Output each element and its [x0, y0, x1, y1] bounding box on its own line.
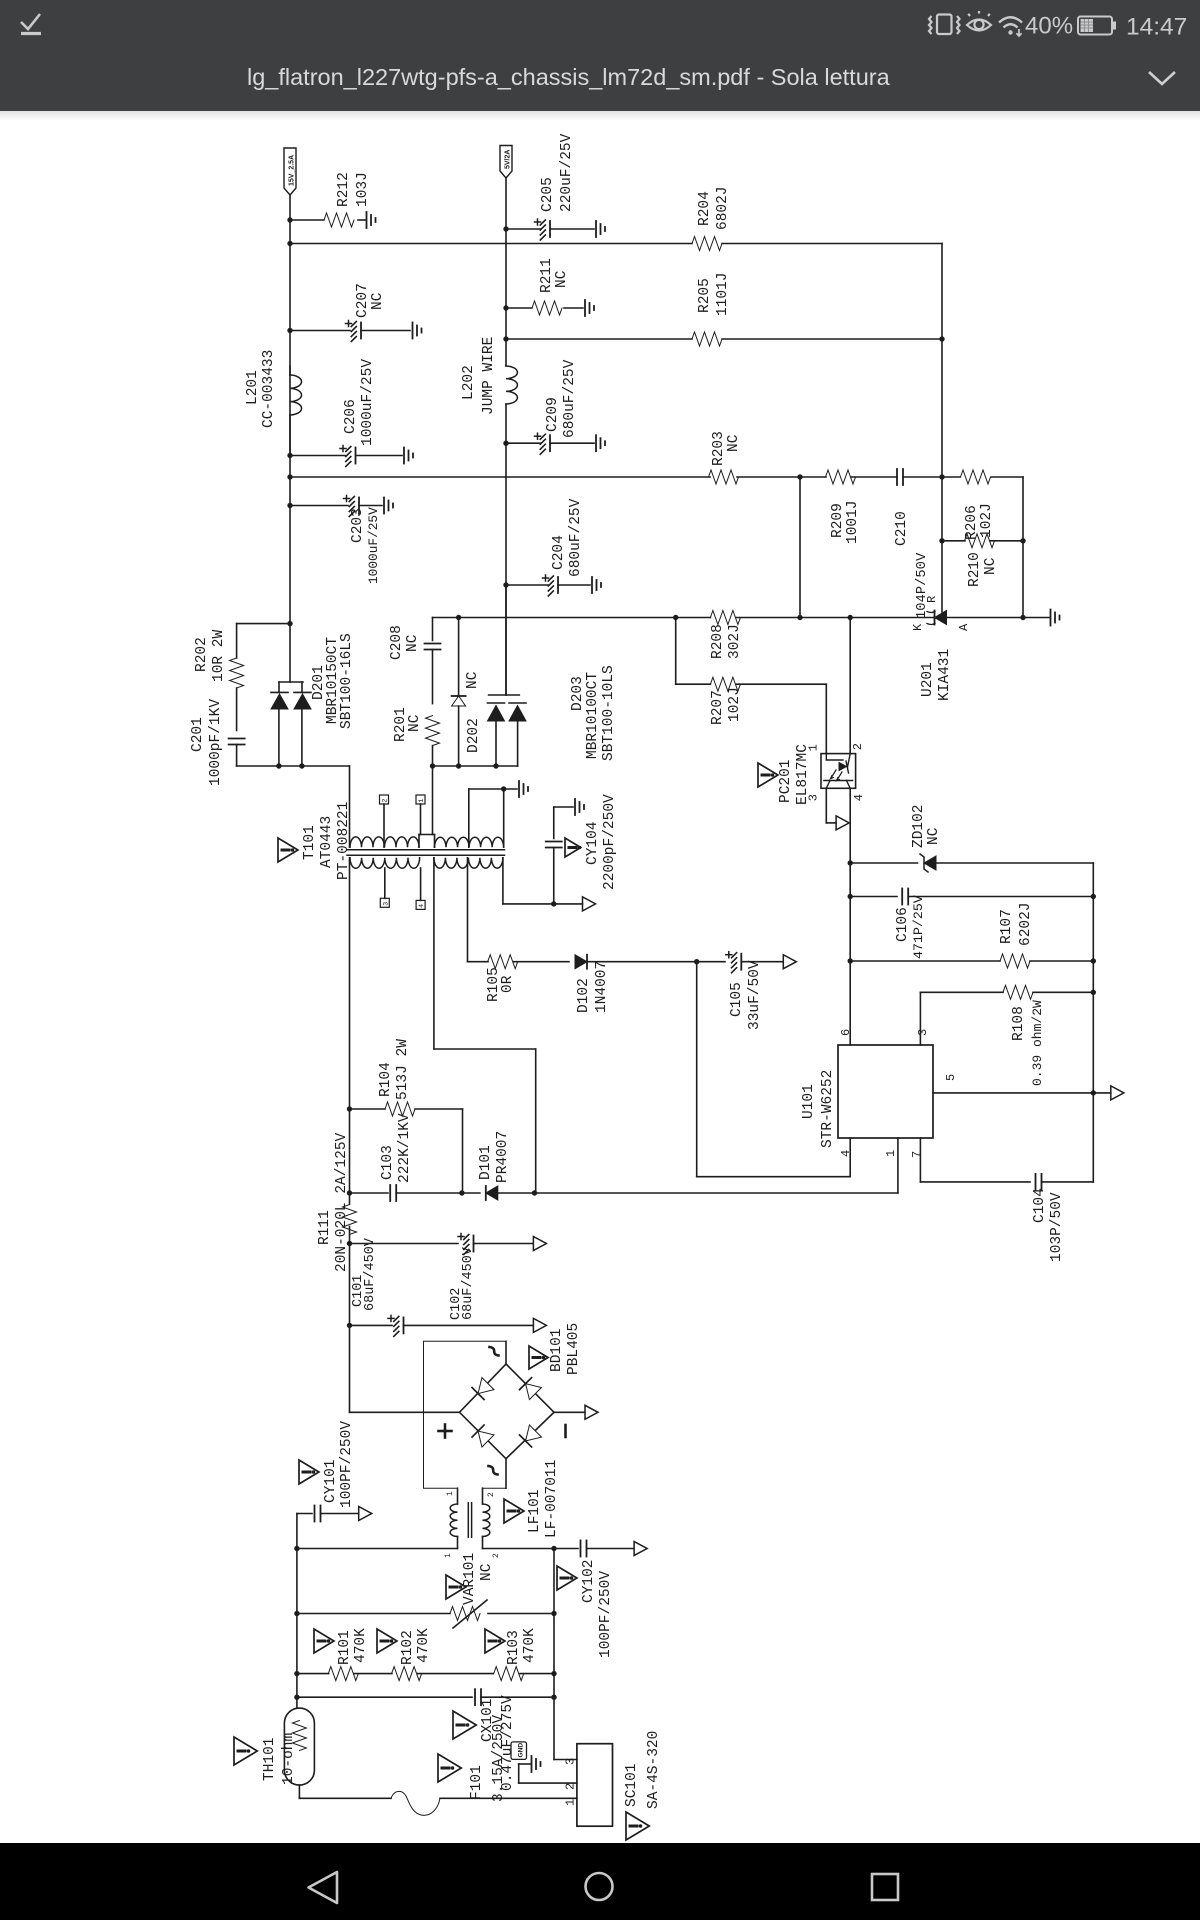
bridge diode top-right — [520, 1378, 542, 1400]
svg-text:R101: R101 — [337, 1630, 353, 1665]
svg-text:C106: C106 — [895, 907, 911, 942]
controller U101 STR-W6252 box — [838, 1045, 933, 1138]
wire: mains N rail — [483, 1548, 579, 1550]
resistor R203 (NC) — [709, 470, 739, 484]
svg-text:0.39 ohm/2W: 0.39 ohm/2W — [1030, 1000, 1045, 1086]
svg-text:302J: 302J — [727, 624, 743, 659]
ground for C204 — [591, 577, 593, 593]
capacitor C101 — [350, 1324, 393, 1326]
svg-text:2: 2 — [492, 1553, 501, 1558]
net arrow (pin3) — [836, 816, 849, 830]
wire: secondary rectifier top rail — [433, 617, 711, 619]
svg-text:NC: NC — [554, 270, 570, 288]
svg-text:513J 2W: 513J 2W — [395, 1039, 411, 1100]
bridge minus mark — [564, 1425, 567, 1437]
capacitor C201 — [229, 738, 245, 740]
svg-text:40%: 40% — [1025, 13, 1073, 40]
svg-text:680uF/25V: 680uF/25V — [568, 498, 584, 577]
warning triangle BD101 — [529, 1346, 548, 1369]
svg-text:MBR10100CT: MBR10100CT — [585, 672, 601, 759]
SC101 pin 2 stub and GND — [519, 1782, 577, 1784]
svg-text:BD101: BD101 — [549, 1328, 565, 1372]
ground at SC101 pin2 — [531, 1756, 533, 1772]
svg-text:1: 1 — [444, 1553, 453, 1558]
wire: PC201 pin4 down to U101 pin6 — [849, 788, 851, 1045]
svg-text:222K/1KV: 222K/1KV — [397, 1113, 413, 1183]
svg-text:PR4007: PR4007 — [495, 1131, 511, 1183]
svg-text:1N4007: 1N4007 — [594, 961, 610, 1013]
shunt regulator U201 KIA431 — [934, 611, 936, 625]
fuse F101 — [391, 1791, 440, 1815]
transformer T101 primary winding (bottom right) — [434, 858, 503, 868]
svg-text:104P/50V: 104P/50V — [914, 552, 930, 619]
status bar icons — [0, 0, 1200, 111]
svg-text:1000uF/25V: 1000uF/25V — [360, 359, 376, 446]
svg-text:20N-020L 2A/125V: 20N-020L 2A/125V — [334, 1132, 350, 1272]
vibrate icon — [929, 15, 960, 35]
svg-text:CY101: CY101 — [323, 1459, 339, 1503]
capacitor C207 (NC) — [290, 330, 350, 332]
svg-text:R102: R102 — [400, 1630, 416, 1665]
net arrow (aux return) — [583, 897, 596, 911]
nav recents button — [872, 1874, 898, 1900]
svg-text:L202: L202 — [461, 365, 477, 400]
svg-text:100PF/250V: 100PF/250V — [339, 1421, 355, 1508]
optocoupler PC201 EL817MC — [821, 754, 856, 789]
svg-text:NC: NC — [983, 557, 999, 575]
nav home button — [586, 1873, 613, 1900]
svg-text:1: 1 — [564, 1799, 578, 1806]
ground at divider — [1050, 610, 1052, 626]
svg-text:L201: L201 — [245, 370, 261, 405]
svg-text:C206: C206 — [343, 399, 359, 434]
net arrow (HV+ C102) — [533, 1237, 546, 1251]
svg-text:10R 2W: 10R 2W — [211, 629, 227, 682]
svg-text:6802J: 6802J — [715, 186, 731, 230]
svg-text:NC: NC — [926, 827, 942, 845]
ground for C203 — [383, 498, 385, 514]
svg-text:NC: NC — [479, 1563, 495, 1581]
download-done icon — [21, 14, 41, 34]
svg-text:103J: 103J — [355, 172, 371, 207]
bridge BD101 diamond and terminals — [350, 1411, 460, 1413]
wire: R206/R210 right vertical — [1022, 477, 1024, 618]
LF101 core lines — [467, 1503, 469, 1538]
svg-text:C104: C104 — [1032, 1188, 1048, 1223]
net arrow (CY102) — [634, 1542, 647, 1556]
wire: 15V feedback rail to R204 — [290, 243, 692, 245]
resistor R209 — [826, 470, 856, 484]
resistor R102 470K — [354, 1673, 392, 1675]
svg-text:R204: R204 — [697, 191, 713, 226]
svg-text:C105: C105 — [729, 982, 745, 1017]
U101 pin4 wire — [849, 1138, 851, 1177]
SC101 pin 3 stub — [554, 1759, 577, 1761]
svg-text:R211: R211 — [539, 258, 555, 293]
svg-text:D101: D101 — [478, 1145, 494, 1180]
bridge plus mark — [439, 1430, 452, 1433]
net arrow (HV+ C101) — [533, 1318, 546, 1332]
svg-text:2: 2 — [487, 1492, 496, 1497]
resistor R104 — [350, 1108, 386, 1110]
svg-text:471P/25V: 471P/25V — [911, 895, 926, 959]
battery icon — [1078, 17, 1115, 35]
svg-text:VAR101: VAR101 — [462, 1553, 478, 1605]
wire: mains L rail — [296, 1514, 298, 1709]
warning triangle PC201 — [758, 763, 778, 787]
svg-text:STR-W6252: STR-W6252 — [820, 1070, 836, 1148]
flag 15V_2.5A — [284, 148, 296, 195]
svg-text:C204: C204 — [551, 535, 567, 570]
svg-text:470K: 470K — [353, 1628, 369, 1663]
resistor R206 — [961, 470, 991, 484]
transformer pin square bottom 1 — [380, 898, 389, 907]
svg-text:CY104: CY104 — [585, 821, 601, 865]
svg-text:D102: D102 — [576, 978, 592, 1013]
resistor R204 — [692, 237, 722, 251]
svg-text:1000uF/25V: 1000uF/25V — [366, 507, 381, 584]
U101 pin5 wire and net arrow — [933, 1092, 1111, 1094]
svg-text:470K: 470K — [416, 1628, 432, 1663]
svg-text:JUMP WIRE: JUMP WIRE — [481, 337, 497, 415]
svg-text:C207: C207 — [355, 283, 371, 318]
wire: compensation right vertical — [1092, 863, 1094, 1182]
line filter LF101 pins from bridge — [457, 1488, 459, 1504]
eye icon — [967, 11, 991, 31]
svg-text:R209: R209 — [830, 503, 846, 538]
line filter LF101 windings — [450, 1504, 457, 1536]
svg-text:220uF/25V: 220uF/25V — [559, 133, 575, 212]
svg-text:K: K — [911, 623, 925, 631]
warning triangle LF101 — [504, 1499, 524, 1523]
double diode D203 MBR10100CT — [505, 585, 507, 695]
svg-text:6202J: 6202J — [1018, 902, 1034, 946]
status bar — [0, 0, 1200, 111]
wire: 5V vertical bus — [505, 178, 507, 366]
capacitor C106 — [850, 896, 897, 898]
svg-text:1101J: 1101J — [715, 272, 731, 316]
svg-text:SBT100-10LS: SBT100-10LS — [601, 665, 617, 761]
net arrow (Vcc) — [783, 955, 796, 969]
svg-text:2: 2 — [851, 743, 865, 750]
resistor R212 — [290, 219, 324, 221]
wire: TH101 to fuse — [298, 1785, 300, 1798]
capacitor C104 — [1035, 1174, 1037, 1190]
transformer T101 aux winding (top right) — [435, 837, 504, 847]
resistor R101 470K — [297, 1673, 329, 1675]
bridge AC mark bottom — [489, 1466, 498, 1475]
svg-text:SA-4S-320: SA-4S-320 — [646, 1731, 662, 1809]
svg-text:LF101: LF101 — [527, 1489, 543, 1533]
svg-text:100PF/250V: 100PF/250V — [598, 1571, 614, 1658]
wire: D201 anode rail (left) — [237, 765, 350, 767]
svg-text:R104: R104 — [378, 1062, 394, 1097]
svg-text:R205: R205 — [697, 278, 713, 313]
U101 pin7 wire — [919, 1138, 921, 1182]
svg-text:1000pF/1KV: 1000pF/1KV — [208, 699, 224, 786]
svg-text:C209: C209 — [545, 397, 561, 432]
svg-text:CY102: CY102 — [581, 1559, 597, 1603]
transformer pin square top 1 — [380, 795, 389, 804]
resistor R108 — [1003, 985, 1033, 999]
svg-text:3: 3 — [916, 1029, 930, 1036]
svg-text:R212: R212 — [336, 172, 352, 207]
svg-text:PT-008221: PT-008221 — [336, 802, 352, 880]
connector SC101 box — [577, 1744, 613, 1827]
wire: Vcc winding tap down to R105 — [467, 858, 469, 962]
wire: 15V rail vertical bus from flag — [289, 195, 291, 624]
svg-text:3.15A/250V: 3.15A/250V — [491, 1715, 507, 1802]
svg-text:10-ohm: 10-ohm — [281, 1733, 297, 1785]
wire: R207/R208 left vertical — [675, 618, 677, 685]
svg-text:NC: NC — [726, 434, 742, 452]
ground for CY104 — [574, 799, 576, 815]
resistor R105 — [488, 955, 518, 969]
node: junctions on 15V bus — [287, 217, 292, 222]
svg-text:7: 7 — [910, 1151, 924, 1158]
GND net label box — [511, 1742, 527, 1760]
svg-text:R: R — [925, 596, 939, 603]
svg-text:680uF/25V: 680uF/25V — [562, 359, 578, 438]
nav back button — [309, 1872, 338, 1903]
resistor R210 (NC) line — [942, 540, 965, 542]
resistor R208 — [710, 611, 740, 625]
diode D202 (NC) — [458, 618, 460, 697]
svg-text:3: 3 — [382, 902, 389, 906]
svg-text:1: 1 — [884, 1150, 898, 1157]
svg-text:NC: NC — [407, 714, 423, 732]
capacitor C204 — [506, 584, 548, 586]
chevron expand — [1149, 72, 1175, 84]
svg-text:C210: C210 — [894, 511, 910, 546]
bridge AC mark top — [490, 1347, 499, 1356]
net arrow (bridge minus) — [585, 1405, 598, 1419]
svg-text:68uF/450V: 68uF/450V — [461, 1246, 476, 1320]
ground for C207 — [412, 323, 414, 339]
svg-text:R111: R111 — [317, 1210, 333, 1245]
svg-text:EL817MC: EL817MC — [795, 744, 811, 805]
wire: R209 branch vertical — [799, 477, 801, 618]
resistor R205 — [692, 332, 722, 346]
diode D102 1N4007 — [575, 955, 587, 969]
svg-text:GND: GND — [518, 1743, 525, 1758]
svg-text:D202: D202 — [466, 718, 482, 753]
wire: secondary rectifier bottom rail (right) — [433, 765, 518, 767]
svg-text:33uF/50V: 33uF/50V — [747, 960, 763, 1030]
svg-text:AT0443: AT0443 — [319, 816, 335, 868]
svg-text:5: 5 — [944, 1074, 958, 1081]
svg-text:PBL405: PBL405 — [566, 1323, 582, 1375]
capacitor C105 — [740, 954, 742, 970]
svg-text:ZD102: ZD102 — [911, 804, 927, 848]
capacitor CY104 with Y-cap warning — [553, 807, 555, 839]
svg-text:TH101: TH101 — [262, 1737, 278, 1781]
ground for C205 — [595, 221, 597, 237]
bridge diode top-left — [472, 1378, 494, 1400]
svg-text:R108: R108 — [1011, 1006, 1027, 1041]
ground for C209 — [595, 435, 597, 451]
resistor R107 — [850, 960, 1000, 962]
thermistor TH101 — [284, 1708, 314, 1785]
wire: primary aux return line — [502, 858, 504, 904]
svg-text:2: 2 — [564, 1783, 578, 1790]
svg-text:15V_2.5A: 15V_2.5A — [288, 155, 295, 186]
svg-text:102J: 102J — [727, 687, 743, 722]
wire: sense rail (R203 line) — [290, 476, 710, 478]
wire: Vcc to U101 pin4 — [696, 962, 698, 1177]
resistor R103 470K — [417, 1673, 493, 1675]
svg-text:68uF/450V: 68uF/450V — [363, 1237, 378, 1311]
capacitor C206 — [290, 455, 345, 457]
capacitor C209 — [506, 442, 540, 444]
capacitor CX101 X-cap — [297, 1696, 472, 1698]
wire: PC201 pin3 to net arrow — [825, 788, 827, 823]
ground at transformer aux winding — [518, 781, 520, 797]
svg-text:C205: C205 — [540, 177, 556, 212]
svg-text:CC-003433: CC-003433 — [261, 350, 277, 428]
svg-text:C201: C201 — [190, 717, 206, 752]
wire: 5V feedback rail to R205 — [506, 338, 692, 340]
svg-text:PC201: PC201 — [778, 759, 794, 803]
wire: divider bus from rails — [941, 244, 943, 613]
svg-text:C203: C203 — [350, 508, 366, 543]
svg-text:5V/2A: 5V/2A — [504, 150, 511, 169]
wire: R202 branch from 15V bus — [237, 623, 290, 625]
zener diode ZD102 (NC) — [850, 862, 917, 864]
svg-text:1001J: 1001J — [845, 500, 861, 544]
resistor R201 (NC) — [426, 716, 440, 746]
warning triangle T101 — [278, 838, 298, 862]
svg-text:F101: F101 — [469, 1765, 485, 1800]
capacitor C203 — [290, 505, 348, 507]
svg-text:470K: 470K — [522, 1628, 538, 1663]
transformer pin square top 2 — [416, 795, 425, 804]
svg-text:U201: U201 — [920, 662, 936, 697]
wifi icon — [999, 17, 1022, 36]
svg-text:T101: T101 — [302, 825, 318, 860]
resistor R211 (NC) — [506, 307, 532, 309]
varistor VAR101 (NC) — [297, 1613, 450, 1615]
inductor L202 jump wire — [506, 366, 517, 404]
svg-text:R107: R107 — [999, 909, 1015, 944]
svg-text:SBT100-16LS: SBT100-16LS — [339, 633, 355, 729]
bridge diode bottom-right — [520, 1425, 542, 1447]
svg-text:R103: R103 — [506, 1630, 522, 1665]
svg-text:14:47: 14:47 — [1126, 14, 1187, 41]
inductor L201 — [290, 375, 302, 415]
resistor R111 fusible — [343, 1205, 357, 1235]
capacitor C205 — [506, 228, 540, 230]
svg-text:NC: NC — [405, 634, 421, 652]
svg-text:2: 2 — [382, 799, 389, 803]
bridge rectifier BD101 package outline — [424, 1341, 507, 1488]
svg-text:1: 1 — [418, 799, 425, 803]
svg-text:D203: D203 — [570, 676, 586, 711]
svg-text:SC101: SC101 — [624, 1763, 640, 1807]
U101 pin1 wire (drain) — [897, 1138, 899, 1193]
resistor R202 — [230, 658, 244, 688]
svg-text:3: 3 — [564, 1758, 578, 1765]
svg-text:C208: C208 — [389, 625, 405, 660]
svg-text:2200pF/250V: 2200pF/250V — [602, 794, 618, 890]
svg-text:4: 4 — [839, 1150, 853, 1157]
ground for R211 — [584, 300, 586, 316]
pdf background band — [0, 111, 1200, 120]
title text — [247, 64, 890, 91]
capacitor C102 — [350, 1243, 459, 1245]
diode D101 PR4007 — [486, 1186, 498, 1200]
U101 pin3 wire to R108 — [919, 992, 921, 1045]
net arrow (CY101) — [359, 1507, 372, 1521]
svg-text:NC: NC — [465, 671, 481, 689]
navigation bar — [0, 1843, 1200, 1920]
svg-text:KIA431: KIA431 — [937, 649, 953, 701]
capacitor CY102 with warning — [580, 1541, 582, 1557]
svg-text:A: A — [957, 623, 971, 631]
transformer T101 core — [347, 849, 505, 851]
svg-text:C103: C103 — [380, 1145, 396, 1180]
warning triangle SC101 — [626, 1812, 649, 1840]
capacitor C210 — [896, 469, 898, 485]
capacitor CY101 with warning — [297, 1513, 312, 1515]
svg-text:R203: R203 — [711, 431, 727, 466]
svg-text:103P/50V: 103P/50V — [1049, 1192, 1065, 1262]
double diode D201 MBR10150CT — [289, 624, 291, 682]
transformer T101 primary winding (bottom left) — [350, 858, 420, 868]
wire: aux winding ground line — [469, 788, 517, 790]
transformer T101 secondary winding (top left) — [350, 837, 419, 847]
bridge diode bottom-left — [472, 1425, 494, 1447]
svg-text:1: 1 — [446, 1491, 455, 1496]
resistor R207 — [710, 677, 740, 691]
svg-text:R210: R210 — [967, 552, 983, 587]
svg-text:0R: 0R — [500, 975, 516, 993]
svg-text:R202: R202 — [194, 637, 210, 672]
svg-text:4: 4 — [418, 904, 425, 908]
svg-text:U101: U101 — [801, 1084, 817, 1119]
capacitor C103 — [349, 1109, 351, 1204]
svg-text:R208: R208 — [710, 624, 726, 659]
capacitor C208 (NC) — [432, 618, 434, 641]
svg-text:6: 6 — [839, 1029, 853, 1036]
ground for R212 — [366, 212, 368, 228]
wire: drain snubber branch from winding — [433, 858, 435, 1049]
svg-text:R207: R207 — [710, 690, 726, 725]
svg-text:NC: NC — [370, 292, 386, 310]
svg-text:LF-007011: LF-007011 — [544, 1460, 560, 1538]
svg-text:4: 4 — [852, 794, 866, 801]
flag 5V/2A — [500, 146, 512, 179]
transformer pin square bottom 2 — [416, 900, 425, 909]
ground for C206 — [403, 448, 405, 464]
